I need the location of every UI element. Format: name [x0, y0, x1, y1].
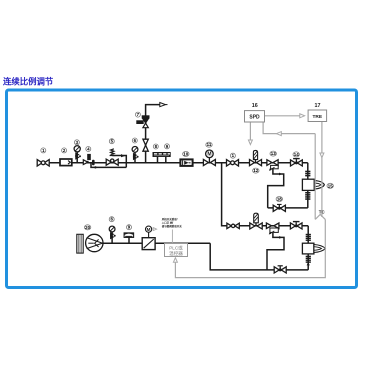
svg-text:20: 20 — [85, 225, 90, 230]
svg-text:M: M — [147, 227, 151, 232]
flex coil upper burner top — [305, 171, 310, 177]
wire bypass under valve4 regulator5 — [91, 163, 126, 168]
wire lower burner downleg — [307, 226, 309, 243]
filter 2 — [60, 159, 72, 166]
open arrow into TRE — [300, 114, 305, 118]
flow meter 10 — [180, 159, 192, 166]
regulator 13b with pilot — [266, 223, 279, 234]
wire pilot line of valve 13 — [268, 169, 284, 208]
motor valve 11 — [203, 150, 215, 166]
SPD box 16 — [245, 103, 265, 122]
regulator 13 with pilot — [267, 160, 278, 171]
valve 18 — [273, 204, 285, 212]
flex coil lower burner top — [306, 234, 311, 241]
svg-text:SPD: SPD — [249, 114, 260, 120]
arrow on bypass line — [95, 166, 98, 169]
wire branch down to lower train — [222, 163, 309, 226]
valve 14 with T handle — [291, 158, 303, 166]
signal TRE down — [321, 122, 323, 218]
open arrow down to valve 12 — [248, 140, 252, 145]
pressure switches 8 9 — [153, 152, 171, 157]
wire comp89 legs — [157, 157, 159, 163]
TRE box 17 — [308, 103, 327, 122]
signal TRE feedback to SPD — [263, 122, 315, 134]
svg-text:TC: TC — [319, 210, 326, 215]
flex coil lower burner bottom — [306, 256, 311, 263]
arrow on pilot 13 — [279, 173, 282, 176]
svg-text:15: 15 — [328, 183, 333, 188]
pressure switch 9b — [124, 233, 134, 238]
valve below 7 — [143, 139, 148, 151]
burner 15b — [302, 243, 325, 254]
wire regulator5 sensing line — [112, 156, 126, 168]
signal TC to PLC feedback — [175, 219, 325, 277]
wire air line from blower — [103, 242, 142, 244]
open arrow left on feedback line — [277, 132, 282, 136]
control valve 12 with cylinder — [250, 150, 262, 165]
svg-text:M: M — [207, 152, 211, 158]
svg-text:14: 14 — [294, 152, 299, 157]
signal lines gray — [172, 116, 325, 278]
svg-text:入口手 阀/: 入口手 阀/ — [162, 220, 174, 224]
arrow on pilot 13b — [279, 236, 282, 239]
wire gauge3 stem — [76, 152, 78, 163]
component number labels — [41, 112, 334, 230]
svg-text:风机开关联动/: 风机开关联动/ — [162, 217, 178, 221]
valve 1 ball valve — [37, 160, 49, 166]
valve 4 with solenoid — [83, 154, 94, 165]
wire gauge6b stem — [111, 232, 113, 244]
vent to atmosphere arrow — [160, 103, 168, 107]
intake filter — [77, 234, 83, 253]
open arrow at M leader — [153, 228, 156, 231]
wire comp9b stem — [128, 237, 130, 243]
valve 1b ball valve — [227, 160, 239, 166]
svg-text:温控器: 温控器 — [169, 250, 183, 257]
svg-text:连续比例调节: 连续比例调节 — [3, 77, 54, 87]
svg-text:17: 17 — [315, 103, 321, 109]
svg-text:16: 16 — [252, 103, 258, 109]
control valve 12b with cylinder — [250, 213, 262, 229]
svg-text:PLC或: PLC或 — [169, 245, 183, 251]
wire gauge6 stem — [134, 153, 136, 163]
blower 20 — [86, 234, 103, 251]
wire air line down and to lower burner — [210, 243, 308, 270]
regulator 5 with spring and sensing — [106, 149, 124, 165]
svg-text:18: 18 — [277, 197, 282, 202]
burner 15 — [302, 179, 324, 190]
gauge 6b with cock — [109, 226, 116, 239]
annotation leader line — [171, 230, 173, 244]
open arrow down on TRE line — [320, 153, 324, 158]
open arrow up into PLC — [173, 258, 177, 263]
svg-text:11: 11 — [207, 142, 212, 147]
wire pilot line of lower regulator — [267, 233, 284, 270]
wire vent riser — [146, 105, 160, 163]
wire upper burner downleg — [307, 163, 309, 180]
arrow up into lower burner — [307, 262, 310, 265]
flex coil upper burner bottom — [305, 192, 310, 200]
annotation text — [162, 217, 183, 228]
lower train ball valve — [227, 223, 239, 228]
signal SPD to TRE — [265, 115, 300, 117]
svg-text:10: 10 — [183, 151, 188, 156]
svg-text:12: 12 — [253, 168, 258, 173]
TC roof — [315, 215, 325, 220]
signal left vertical to TC — [314, 134, 316, 220]
svg-text:TRE: TRE — [312, 114, 322, 120]
valve 14b with T handle — [290, 221, 302, 229]
damper with motor M — [142, 226, 155, 250]
relief valve 7 — [137, 116, 149, 128]
PLC controller box — [165, 244, 188, 258]
signal SPD down to valve12 — [249, 122, 251, 140]
svg-text:13: 13 — [271, 151, 276, 156]
wire valve18 bypass line — [268, 207, 308, 209]
svg-text:调节蝶阀联动开关: 调节蝶阀联动开关 — [162, 224, 183, 228]
gauge 6 with cock — [132, 147, 139, 160]
wire main gas line — [37, 162, 308, 164]
bypass valve lower — [274, 265, 286, 273]
frame border — [7, 90, 357, 288]
gauge 3 with cock — [74, 146, 81, 159]
